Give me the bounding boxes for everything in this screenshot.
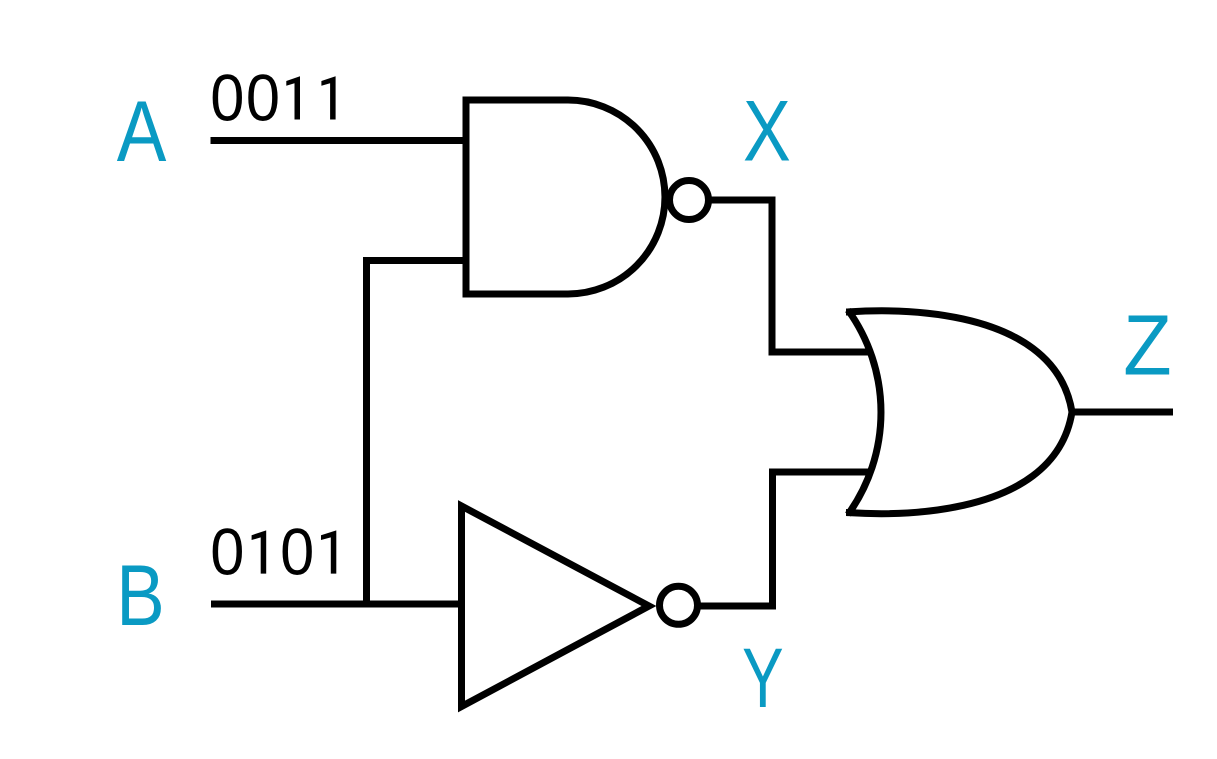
OR gate U3 body: top edge xyxy=(846,311,1072,412)
value label 0101 on input B: digit 1 xyxy=(321,530,336,573)
OR gate U3 body: bottom edge xyxy=(846,412,1072,514)
wire: input A to NAND upper input xyxy=(211,137,467,144)
NAND gate U1 body xyxy=(466,100,665,294)
NAND gate U1 inversion bubble xyxy=(670,181,709,220)
value label 0101 on input B: digit 0 xyxy=(280,514,314,589)
wire: OR output to Z xyxy=(1070,409,1173,416)
node label Y xyxy=(742,631,783,725)
svg-text:X: X xyxy=(743,82,791,179)
value label 0101 on input B: digit 1 xyxy=(252,530,267,573)
svg-text:Y: Y xyxy=(742,631,783,725)
inverter U2 (NOT gate) body xyxy=(462,506,650,707)
node label X xyxy=(743,82,791,179)
wire: inverter output Y up to OR lower input xyxy=(697,472,869,606)
svg-text:Z: Z xyxy=(1123,299,1171,393)
value label 0101 on input B: digit 0 xyxy=(210,514,244,589)
output label Z xyxy=(1123,299,1171,393)
input label B xyxy=(116,547,164,643)
svg-text:0: 0 xyxy=(280,514,314,589)
input label A xyxy=(117,84,167,180)
svg-text:0: 0 xyxy=(246,60,280,135)
svg-text:A: A xyxy=(117,84,167,180)
OR gate U3 body: concave input arc xyxy=(848,310,881,515)
wire: branch from B up to NAND lower input xyxy=(367,261,467,605)
wire: NAND output X down to OR upper input xyxy=(711,200,869,352)
value label 0011 on input A: digit 1 xyxy=(321,76,335,119)
value label 0011 on input A: digit 0 xyxy=(246,60,280,135)
value label 0011 on input A: digit 1 xyxy=(286,76,300,119)
svg-text:0: 0 xyxy=(210,514,244,589)
svg-text:B: B xyxy=(116,547,164,643)
inverter U2 inversion bubble xyxy=(660,586,698,624)
value label 0011 on input A: digit 0 xyxy=(210,60,244,135)
svg-text:0: 0 xyxy=(210,60,244,135)
wire: input B to inverter input xyxy=(211,601,463,608)
